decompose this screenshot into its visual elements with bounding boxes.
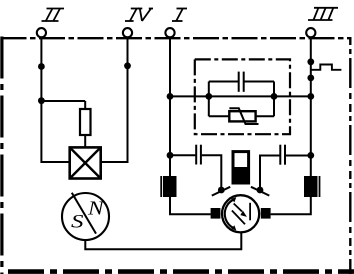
gauge magnet circle S N <box>62 193 109 240</box>
motor brush junction dot right <box>257 187 264 194</box>
motor M1 circle <box>222 195 259 232</box>
wire C3 to motor dot <box>260 156 280 191</box>
frame top border (chain line) <box>1 37 352 39</box>
lamp X-box HL1 <box>70 147 101 178</box>
terminal III <box>306 28 315 37</box>
wire I down <box>169 37 171 176</box>
node A left <box>205 93 212 100</box>
choke L2 <box>304 176 320 197</box>
junction dot III upper <box>307 58 314 65</box>
wire cap branch left leg <box>208 82 210 97</box>
motor brush right <box>261 208 271 219</box>
wire II to lamp left <box>41 161 69 163</box>
wire thermistor branch left <box>209 115 230 117</box>
frame left border (chain line) <box>0 37 3 274</box>
label IV <box>125 9 153 22</box>
wire thermistor branch right leg <box>273 96 275 116</box>
frame bottom border (thick chain line) <box>8 269 354 274</box>
motor rotation arrow <box>225 197 237 230</box>
wire cap branch top left <box>209 81 238 83</box>
third brush element <box>233 152 249 183</box>
screen dashed box <box>195 59 290 134</box>
motor armature symbol <box>232 203 250 225</box>
wire cap branch top right <box>244 81 274 83</box>
wire resistor branch down <box>84 101 86 109</box>
wire lamp right to IV <box>101 161 128 163</box>
label I <box>172 9 187 22</box>
wire resistor branch horizontal <box>41 100 85 102</box>
junction dot III row A <box>307 93 314 100</box>
junction dot on II wire upper <box>38 63 45 70</box>
thermistor R2 <box>229 108 258 124</box>
svg-text:S: S <box>71 211 84 232</box>
wire cap branch right leg <box>273 82 275 97</box>
wire III down <box>310 37 312 176</box>
svg-text:N: N <box>87 198 106 220</box>
terminal IV <box>123 28 132 37</box>
node A right <box>271 93 278 100</box>
junction dot on IV wire <box>124 62 131 69</box>
gauge diagonal <box>72 193 96 234</box>
junction dot III row B <box>307 152 314 159</box>
junction dot III lower <box>307 75 314 82</box>
junction dot I row B <box>167 152 174 159</box>
resistor R1 <box>80 109 91 135</box>
pulse suppressor symbol <box>311 65 341 70</box>
capacitor C1 <box>239 72 244 92</box>
wire resistor to lamp <box>84 135 86 147</box>
capacitor C3 <box>280 145 285 165</box>
wire gauge to motor bottom <box>85 232 241 249</box>
wire IV down <box>127 37 129 163</box>
junction dot on II wire at resistor branch <box>38 97 45 104</box>
junction dot I row A <box>167 93 174 100</box>
wire row B left <box>170 154 195 156</box>
capacitor C2 <box>196 145 201 165</box>
motor brush junction dot left <box>218 187 225 194</box>
wire II down <box>40 37 42 163</box>
choke L1 <box>161 176 176 197</box>
label II <box>42 9 65 22</box>
terminal II <box>37 28 46 37</box>
frame right border (chain line) <box>349 37 351 274</box>
wire row A <box>170 95 311 97</box>
wire thermistor branch right <box>256 115 274 117</box>
wire choke L1 to motor brush <box>170 197 211 214</box>
wire thermistor branch left leg <box>208 96 210 116</box>
motor brush left <box>211 208 221 219</box>
wire choke L2 to motor brush <box>271 197 311 214</box>
label III <box>308 8 338 20</box>
terminal I <box>165 28 174 37</box>
wire row B right <box>286 155 311 157</box>
wire C2 to motor dot <box>202 155 222 190</box>
motor brush tangent left <box>212 187 230 196</box>
motor brush tangent right <box>251 187 269 196</box>
